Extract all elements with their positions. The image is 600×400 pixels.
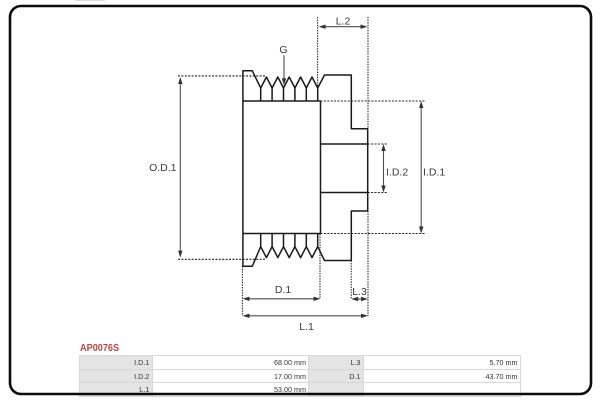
- svg-text:I.D.1: I.D.1: [423, 166, 445, 178]
- svg-text:L.2: L.2: [336, 16, 351, 28]
- svg-text:L.1: L.1: [299, 321, 314, 333]
- svg-text:G: G: [279, 44, 287, 56]
- svg-text:O.D.1: O.D.1: [149, 162, 177, 174]
- svg-text:I.D.2: I.D.2: [386, 166, 408, 178]
- svg-text:L.3: L.3: [352, 286, 367, 298]
- svg-text:D.1: D.1: [275, 284, 292, 296]
